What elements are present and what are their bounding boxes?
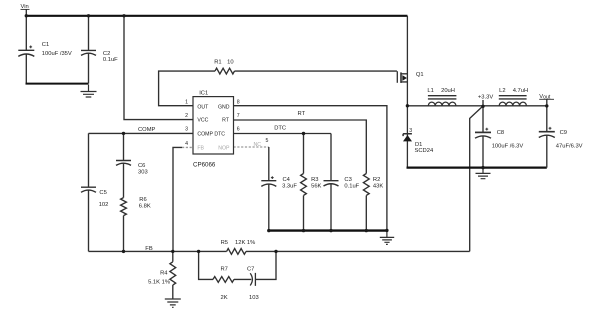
capacitor C4 xyxy=(261,181,276,187)
resistor R1 xyxy=(215,68,235,74)
svg-text:8: 8 xyxy=(237,99,240,105)
svg-text:VCC: VCC xyxy=(197,118,208,124)
svg-text:OUT: OUT xyxy=(197,104,209,110)
wire switch node to L1 xyxy=(407,105,483,107)
svg-text:0.1uF: 0.1uF xyxy=(103,57,118,63)
svg-text:C8: C8 xyxy=(497,130,504,136)
inductor L2 xyxy=(499,102,526,106)
svg-text:10: 10 xyxy=(227,60,233,66)
capacitor C1 xyxy=(18,50,34,56)
svg-text:102: 102 xyxy=(99,202,109,208)
svg-text:6.8K: 6.8K xyxy=(139,204,151,210)
transistor Q1 xyxy=(396,71,398,83)
wire COMP pin3 xyxy=(89,132,194,134)
svg-text:SCD24: SCD24 xyxy=(415,148,434,154)
svg-text:+3.3V: +3.3V xyxy=(478,95,493,101)
wire R1 to Q1 gate xyxy=(235,70,397,72)
wire pin5 NC dashed xyxy=(234,146,269,148)
svg-text:5: 5 xyxy=(266,138,269,144)
svg-text:NOP: NOP xyxy=(218,145,230,151)
svg-text:RT: RT xyxy=(298,111,306,117)
svg-text:C4: C4 xyxy=(283,177,291,183)
wire C9 leg xyxy=(546,106,548,168)
resistor R6 xyxy=(121,198,127,216)
svg-text:3: 3 xyxy=(185,127,188,133)
capacitor C9 xyxy=(539,131,555,133)
resistor R7 xyxy=(213,277,234,283)
svg-text:R5: R5 xyxy=(221,240,228,246)
capacitor C5 xyxy=(81,187,96,192)
svg-text:R2: R2 xyxy=(373,177,380,183)
svg-text:3.3uF: 3.3uF xyxy=(282,184,297,190)
svg-text:C3: C3 xyxy=(344,177,351,183)
wire ground bus 2 xyxy=(269,229,388,231)
capacitor C6 xyxy=(116,161,131,166)
svg-text:Q1: Q1 xyxy=(416,72,424,78)
svg-text:RT: RT xyxy=(222,118,230,124)
svg-text:103: 103 xyxy=(249,295,259,301)
svg-text:0.1uF: 0.1uF xyxy=(344,184,359,190)
svg-text:43K: 43K xyxy=(373,184,383,190)
svg-text:20uH: 20uH xyxy=(441,88,455,94)
svg-text:C5: C5 xyxy=(99,190,106,196)
svg-text:FB: FB xyxy=(197,145,204,151)
wire Q1 drain from Vin bus xyxy=(406,16,408,167)
wire pin4 FB vertical xyxy=(173,147,182,251)
svg-text:303: 303 xyxy=(138,170,148,176)
wire L2 to Vout xyxy=(483,105,547,107)
wire C6-R6 leg xyxy=(123,133,125,251)
svg-text:R3: R3 xyxy=(311,177,318,183)
svg-text:R1: R1 xyxy=(214,60,221,66)
node Vin xyxy=(25,10,27,17)
wire Vin bus xyxy=(26,15,408,17)
svg-text:C6: C6 xyxy=(138,163,145,169)
capacitor C2 xyxy=(81,50,96,55)
wire C5 leg xyxy=(88,133,90,251)
svg-text:2: 2 xyxy=(185,113,188,119)
svg-text:IC1: IC1 xyxy=(199,91,208,97)
capacitor C7 xyxy=(250,273,255,286)
svg-text:6: 6 xyxy=(237,127,240,133)
resistor R3 xyxy=(301,174,307,196)
svg-text:7: 7 xyxy=(237,113,240,119)
node junction dots xyxy=(25,14,549,253)
wire C2 leg xyxy=(88,16,90,84)
capacitor C8 xyxy=(475,131,491,133)
ground GND3 under bus xyxy=(476,169,491,179)
svg-text:56K: 56K xyxy=(311,184,321,190)
resistor R2 xyxy=(363,174,369,196)
op-amp IC1 CP6066 box xyxy=(193,97,234,154)
resistor R5 xyxy=(227,249,246,255)
inductor L1 xyxy=(428,102,456,106)
svg-text:L2: L2 xyxy=(499,88,505,94)
capacitor C3 xyxy=(324,181,339,186)
svg-text:DTC: DTC xyxy=(214,132,225,138)
wire feedback riser to +3.3V xyxy=(470,106,483,251)
ground GND2 xyxy=(380,231,394,245)
wire pin7 RT xyxy=(234,120,367,230)
svg-text:NC: NC xyxy=(254,142,262,148)
svg-text:L1: L1 xyxy=(427,88,433,94)
svg-text:4.7uH: 4.7uH xyxy=(513,88,528,94)
svg-text:C9: C9 xyxy=(560,130,567,136)
ground GND1 under C2 xyxy=(81,85,97,97)
wire R4 leg xyxy=(172,251,174,298)
wire pin8 GND to ground xyxy=(234,106,387,231)
wire pin6 DTC xyxy=(234,134,332,231)
svg-text:COMP: COMP xyxy=(138,127,156,133)
svg-text:4: 4 xyxy=(185,141,188,147)
svg-text:3: 3 xyxy=(409,128,412,134)
wire pin1 OUT to R1 xyxy=(159,71,215,106)
svg-text:R7: R7 xyxy=(221,266,228,272)
svg-text:R6: R6 xyxy=(139,197,146,203)
svg-text:CP6066: CP6066 xyxy=(193,162,216,169)
node +3.3V stub xyxy=(482,100,484,106)
svg-text:1: 1 xyxy=(185,99,188,105)
svg-text:2K: 2K xyxy=(221,295,228,301)
wire C1 leg xyxy=(25,16,27,84)
svg-text:GND: GND xyxy=(218,104,230,110)
ground under R4 xyxy=(165,299,181,307)
svg-text:100uF /6.3V: 100uF /6.3V xyxy=(492,144,524,150)
svg-text:FB: FB xyxy=(145,246,153,252)
wire VCC from bus to pin 2 xyxy=(124,16,193,120)
resistor R4 xyxy=(170,262,176,285)
svg-text:12K 1%: 12K 1% xyxy=(235,240,255,246)
wire C8 leg xyxy=(482,106,484,167)
wire R7-C7 branch xyxy=(199,251,276,279)
svg-text:5.1K 1%: 5.1K 1% xyxy=(148,279,170,285)
svg-text:R4: R4 xyxy=(160,271,168,277)
wire C4 leg xyxy=(268,147,270,230)
svg-text:DTC: DTC xyxy=(274,126,286,132)
svg-text:100uF /35V: 100uF /35V xyxy=(42,51,72,57)
svg-text:47uF/6.3V: 47uF/6.3V xyxy=(556,144,583,150)
svg-text:C1: C1 xyxy=(42,42,49,48)
wire FB line xyxy=(89,250,470,252)
svg-text:C7: C7 xyxy=(247,266,254,272)
node Vout stub xyxy=(546,100,548,107)
wire R3 leg xyxy=(303,134,305,231)
wire C1-C2 bottom xyxy=(26,83,89,85)
diode D1 SCD24 xyxy=(403,134,412,136)
svg-text:COMP: COMP xyxy=(197,132,213,138)
wire output ground bus 3 xyxy=(407,167,547,169)
